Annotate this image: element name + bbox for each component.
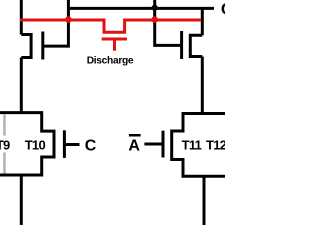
node: junction dot on top rail bbox=[152, 5, 158, 11]
wire: gate riser to top edge bbox=[67, 0, 70, 48]
node: red junction dot at middle gate wire bbox=[151, 16, 158, 23]
svg-text:C: C bbox=[221, 0, 225, 18]
transistor T10: gate lead bbox=[64, 143, 79, 146]
label A-bar: overline bbox=[129, 134, 141, 137]
transistor left pull-up: channel bracket bbox=[21, 35, 31, 58]
transistor T10: gate bar bbox=[63, 130, 66, 158]
wire: below T11/T12 block to bottom edge bbox=[203, 176, 206, 225]
wire: right rail upper (top rail to transistor) bbox=[201, 8, 204, 35]
transistor Discharge: red gate bar bbox=[102, 38, 127, 41]
transistor pair T9/T10 block outline bbox=[0, 113, 54, 175]
wire: top output rail bbox=[68, 7, 214, 10]
svg-text:T10: T10 bbox=[25, 138, 46, 153]
transistor left pull-up: gate bar bbox=[41, 32, 44, 60]
wire: red precharge/discharge net bbox=[20, 20, 201, 32]
wire: left VDD rail (top segment) bbox=[20, 0, 23, 35]
transistor T9: gray channel bar (cut at left edge) bbox=[3, 114, 5, 173]
svg-text:Discharge: Discharge bbox=[87, 55, 134, 66]
transistor T11: gate bar bbox=[162, 131, 165, 158]
wire: right rail lower (transistor to T11/T12 block) bbox=[201, 57, 204, 116]
svg-text:T9: T9 bbox=[0, 138, 10, 153]
transistor Discharge: red gate stem bbox=[113, 39, 116, 51]
transistor middle pull-up: gate bar bbox=[180, 31, 183, 59]
svg-text:C: C bbox=[85, 138, 97, 155]
wire: below T9/T10 block to bottom edge bbox=[20, 175, 23, 225]
svg-text:T12: T12 bbox=[206, 138, 225, 153]
label background for T9 bbox=[0, 136, 12, 153]
transistor T11: gate lead bbox=[144, 143, 163, 146]
svg-text:T11: T11 bbox=[182, 138, 202, 153]
svg-text:A: A bbox=[128, 137, 140, 154]
wire: middle gate wire from top edge bbox=[155, 0, 182, 45]
transistor middle pull-up: channel bracket bbox=[190, 35, 202, 56]
node: red junction dot at gate riser bbox=[65, 16, 72, 23]
transistor pair T11/T12 block outline bbox=[172, 114, 227, 177]
wire: left rail lower segment to T9/T10 block bbox=[20, 58, 23, 114]
transistor left pull-up: gate lead bbox=[43, 45, 69, 48]
